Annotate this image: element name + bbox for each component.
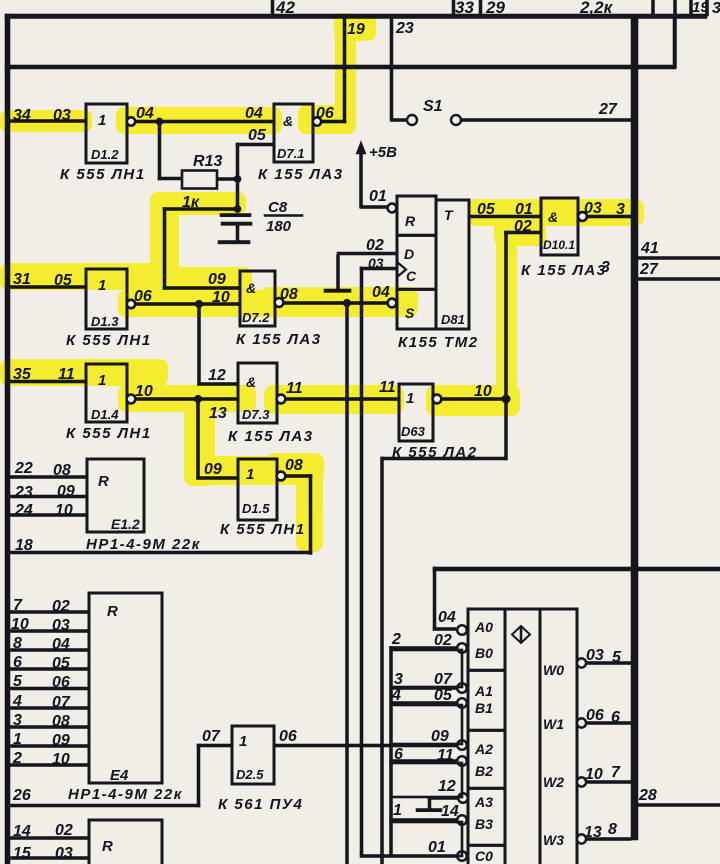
svg-text:3: 3 — [13, 712, 22, 729]
svg-text:03: 03 — [584, 200, 602, 217]
svg-text:&: & — [283, 113, 293, 129]
svg-text:W2: W2 — [543, 774, 564, 790]
svg-text:02: 02 — [55, 822, 73, 839]
svg-text:D7.2: D7.2 — [242, 310, 270, 325]
svg-text:6: 6 — [611, 709, 620, 726]
svg-text:3: 3 — [616, 201, 625, 218]
long vertical wire down to mux area — [381, 457, 384, 864]
svg-text:05: 05 — [248, 127, 267, 144]
mux function symbol (diamond) — [512, 626, 530, 643]
capacitor C8 — [220, 214, 251, 217]
svg-text:8: 8 — [13, 635, 22, 652]
svg-text:13: 13 — [584, 824, 602, 841]
input bubble C0 — [457, 851, 467, 861]
svg-text:А3: А3 — [474, 794, 493, 810]
ground bar under C8 — [218, 241, 250, 244]
input bubble B3 — [457, 815, 467, 825]
wire 4/07 — [9, 707, 89, 710]
svg-text:D81: D81 — [441, 312, 465, 327]
node junction at C8 — [234, 205, 241, 212]
svg-text:4: 4 — [391, 687, 401, 704]
svg-text:29: 29 — [485, 0, 505, 17]
svg-text:5: 5 — [612, 649, 622, 666]
wire 01 to C0 from long vertical — [360, 855, 458, 858]
svg-text:08: 08 — [280, 286, 298, 303]
cell divider — [468, 844, 505, 847]
svg-text:D1.4: D1.4 — [91, 407, 119, 422]
svg-text:D7.1: D7.1 — [277, 146, 304, 161]
NAND gate D10.1 — [541, 198, 578, 255]
svg-text:27: 27 — [598, 101, 618, 118]
svg-text:180: 180 — [266, 218, 292, 235]
svg-text:14: 14 — [441, 803, 459, 820]
svg-text:05: 05 — [54, 272, 73, 289]
svg-text:К 155 ЛА3: К 155 ЛА3 — [228, 428, 314, 445]
D7.2 output bubble — [275, 298, 284, 307]
wire 03 from D10.1 to bus — [587, 215, 632, 218]
wire 04 from D1.2 to D7.1 — [135, 120, 274, 123]
top bus wire 1 — [5, 14, 707, 19]
svg-text:К 155 ЛА3: К 155 ЛА3 — [521, 262, 607, 279]
svg-text:3: 3 — [394, 671, 403, 688]
wire W3 to bus — [586, 838, 631, 841]
wire 08 from D1.5 down to wire 18 — [285, 475, 312, 478]
svg-text:К 155 ЛА3: К 155 ЛА3 — [236, 331, 322, 348]
svg-text:41: 41 — [640, 240, 659, 257]
wire from node down to C8 — [236, 179, 239, 211]
svg-text:02: 02 — [514, 218, 532, 235]
svg-text:03: 03 — [52, 617, 70, 634]
wire 8/04 — [9, 649, 89, 652]
svg-text:Е1.2: Е1.2 — [111, 516, 140, 532]
top cell divider x453 — [452, 0, 455, 16]
clock input triangle — [397, 262, 406, 277]
svg-text:01: 01 — [369, 188, 387, 205]
input bubble A1 — [457, 683, 467, 693]
wire from 26 up to D2.5 input — [197, 744, 200, 807]
svg-text:06: 06 — [52, 674, 70, 691]
svg-text:К 555 ЛН1: К 555 ЛН1 — [66, 332, 152, 349]
svg-text:01: 01 — [515, 201, 533, 218]
svg-text:D1.2: D1.2 — [91, 147, 119, 162]
svg-text:А1: А1 — [474, 683, 493, 699]
svg-text:1: 1 — [393, 802, 402, 819]
svg-text:К 555 ЛН1: К 555 ЛН1 — [60, 166, 146, 183]
svg-text:НР1-4-9М 22к: НР1-4-9М 22к — [86, 536, 201, 553]
svg-text:2: 2 — [12, 750, 22, 767]
svg-text:6: 6 — [394, 746, 403, 763]
input bubble A3 — [458, 793, 468, 803]
input bubble A0 — [457, 625, 467, 635]
wire W0 to bus — [586, 662, 631, 665]
svg-text:В0: В0 — [475, 645, 493, 661]
svg-text:11: 11 — [58, 366, 75, 383]
svg-text:06: 06 — [316, 105, 334, 122]
svg-text:03: 03 — [55, 845, 73, 862]
svg-text:11: 11 — [379, 379, 396, 396]
svg-text:S1: S1 — [423, 98, 443, 115]
top cell divider x480 — [479, 0, 482, 16]
wire 24/10 — [9, 514, 87, 517]
svg-text:04: 04 — [372, 284, 390, 301]
svg-text:33: 33 — [455, 0, 474, 17]
node junction — [502, 395, 510, 403]
svg-text:13: 13 — [209, 405, 227, 422]
divider C/S — [397, 288, 436, 291]
wire 27 to right edge — [636, 278, 720, 281]
S input bubble — [388, 299, 397, 308]
svg-text:А0: А0 — [474, 619, 493, 635]
wire 1/14 to B3 — [390, 819, 458, 822]
svg-text:23: 23 — [395, 20, 414, 37]
wire 06/10 from D1.3 to D7.2 — [135, 303, 240, 306]
svg-text:7: 7 — [611, 764, 621, 781]
D7.1 output bubble — [313, 117, 321, 125]
svg-text:Т: Т — [444, 207, 454, 223]
svg-text:R13: R13 — [193, 153, 222, 170]
svg-text:7: 7 — [13, 597, 23, 614]
svg-text:27: 27 — [639, 261, 659, 278]
svg-text:R: R — [102, 838, 113, 855]
top cell divider x691 — [690, 0, 693, 16]
wire +5V to R input — [360, 206, 388, 209]
wire 23 (vertical to switch S1) — [390, 17, 393, 120]
node junction right of R13 — [234, 175, 241, 182]
mux output column — [540, 609, 577, 864]
svg-text:07: 07 — [434, 671, 453, 688]
svg-text:34: 34 — [13, 107, 31, 124]
svg-text:02: 02 — [366, 237, 384, 254]
svg-text:11: 11 — [286, 380, 303, 397]
svg-text:НР1-4-9М 22к: НР1-4-9М 22к — [68, 786, 183, 803]
wire 6/05 — [9, 668, 89, 671]
wire 35 from edge connector — [9, 380, 86, 383]
svg-text:&: & — [246, 374, 256, 390]
wire 26 — [9, 804, 200, 807]
loop box B1-A2 — [391, 705, 462, 744]
long vertical wire from node down — [346, 303, 349, 864]
top cell divider x707 — [706, 0, 709, 16]
svg-text:C: C — [406, 268, 417, 284]
cell divider — [468, 729, 505, 732]
cell divider — [468, 787, 505, 790]
input bubble B0 — [457, 643, 467, 653]
svg-text:2: 2 — [391, 631, 401, 648]
svg-text:12: 12 — [208, 367, 226, 384]
wire 1k from node to the left and down to D7.2 input 09 — [163, 208, 238, 211]
svg-text:2,2к: 2,2к — [579, 0, 614, 17]
NAND gate D7.2 — [240, 271, 275, 326]
inverter D1.4 — [86, 364, 127, 422]
svg-text:D63: D63 — [401, 424, 426, 439]
NAND gate D7.3 — [238, 363, 277, 423]
D1.4 output bubble — [127, 395, 136, 404]
svg-text:1: 1 — [98, 112, 106, 129]
inverter D1.5 — [238, 459, 277, 520]
wire top of mux enclosure to right edge — [433, 567, 720, 571]
svg-text:09: 09 — [204, 461, 222, 478]
svg-text:05: 05 — [477, 201, 496, 218]
svg-text:09: 09 — [208, 271, 226, 288]
wire 1/09 — [9, 745, 89, 748]
svg-text:D: D — [404, 246, 414, 262]
svg-text:3: 3 — [712, 0, 720, 17]
svg-text:1: 1 — [406, 390, 414, 407]
node junction on wire 13 — [194, 395, 202, 403]
wire from junction down to D7.3 input 12 — [198, 304, 201, 385]
svg-text:W3: W3 — [543, 832, 564, 848]
svg-text:W0: W0 — [543, 662, 564, 678]
svg-text:09: 09 — [431, 728, 449, 745]
svg-text:R: R — [98, 473, 109, 490]
svg-text:42: 42 — [275, 0, 295, 17]
divider R/D — [397, 234, 436, 237]
wire W1 to bus — [586, 722, 631, 725]
svg-text:&: & — [246, 280, 256, 296]
wire 06 to vertical 19 — [321, 120, 346, 123]
svg-text:К 561 ПУ4: К 561 ПУ4 — [218, 796, 303, 813]
svg-text:D1.3: D1.3 — [91, 314, 119, 329]
svg-text:В1: В1 — [475, 700, 493, 716]
wire from junction down to D1.5 input — [197, 399, 200, 479]
long vertical wire 03 down — [360, 267, 363, 856]
wire 2/10 — [9, 764, 89, 767]
wire 03 to D81 C input — [360, 267, 397, 270]
svg-text:К155 ТМ2: К155 ТМ2 — [398, 334, 479, 351]
svg-text:А2: А2 — [474, 741, 493, 757]
svg-text:С0: С0 — [475, 848, 493, 864]
wire 3/07 to A1 — [391, 687, 457, 690]
wire 27 from S1 to bus — [461, 119, 631, 122]
top cell divider x272 — [271, 0, 274, 16]
svg-text:07: 07 — [202, 728, 221, 745]
wire 15/03 — [9, 857, 89, 860]
wire 05 from node up to D7.1 input — [236, 143, 239, 181]
box at top right of bus — [673, 16, 677, 68]
svg-text:R: R — [107, 603, 118, 620]
svg-text:10: 10 — [212, 289, 230, 306]
svg-text:07: 07 — [52, 694, 71, 711]
D1.5 output bubble — [277, 472, 286, 481]
inverter D6.3 — [399, 384, 433, 441]
top cell divider x653 — [652, 0, 655, 16]
svg-text:D7.3: D7.3 — [242, 407, 270, 422]
svg-text:06: 06 — [586, 707, 604, 724]
svg-text:К 155 ЛА3: К 155 ЛА3 — [258, 166, 344, 183]
svg-text:04: 04 — [136, 105, 154, 122]
capacitor stub above wire 14 — [428, 797, 431, 809]
svg-text:D10.1: D10.1 — [543, 238, 575, 252]
D1.2 output bubble — [127, 117, 135, 125]
svg-text:К 555 ЛН1: К 555 ЛН1 — [66, 425, 152, 442]
loop box B3-C0 — [391, 822, 462, 856]
wire 4/05 to B1 — [391, 702, 457, 705]
svg-text:01: 01 — [428, 839, 446, 856]
svg-text:R: R — [405, 213, 416, 229]
svg-text:11: 11 — [437, 747, 454, 764]
node junction on wire 08 — [343, 299, 351, 307]
inverter D1.3 — [86, 269, 127, 329]
NAND gate D7.1 — [274, 104, 313, 162]
R input bubble — [388, 204, 397, 213]
wire down to A0 — [433, 567, 436, 629]
svg-text:С8: С8 — [268, 199, 288, 216]
wire 10/13 from D1.4 to D7.3 — [135, 398, 238, 401]
switch S1 contact right — [451, 115, 461, 125]
node junction on wire 10 — [195, 300, 203, 308]
svg-text:10: 10 — [11, 616, 29, 633]
svg-text:03: 03 — [368, 255, 384, 271]
wire 5/06 — [9, 687, 89, 690]
flip-flop D81 K155TM2 main box — [397, 196, 436, 329]
svg-text:05: 05 — [434, 687, 453, 704]
resistor network E4 — [89, 593, 162, 783]
svg-text:1: 1 — [246, 466, 254, 483]
edge connector border (left bus) — [5, 14, 10, 864]
loop box B2-A3 — [391, 763, 462, 797]
wire 28 to right edge — [636, 804, 720, 807]
multiplexer chip left pin column — [468, 609, 505, 864]
svg-text:10: 10 — [55, 502, 73, 519]
svg-text:04: 04 — [245, 105, 263, 122]
wire 06/09 from D2.5 to mux A2 — [274, 744, 457, 747]
svg-text:06: 06 — [279, 728, 297, 745]
wire 22/08 — [9, 476, 87, 479]
svg-text:1: 1 — [98, 372, 106, 389]
svg-text:04: 04 — [52, 636, 70, 653]
svg-text:12: 12 — [438, 778, 456, 795]
wire 3/08 — [9, 726, 89, 729]
svg-text:08: 08 — [285, 457, 303, 474]
output bubble W2 — [577, 777, 586, 786]
svg-text:02: 02 — [52, 598, 70, 615]
input bubble B2 — [457, 756, 467, 766]
svg-text:19: 19 — [347, 21, 365, 38]
svg-text:31: 31 — [13, 271, 31, 288]
wire 10/03 — [9, 630, 89, 633]
svg-text:&: & — [548, 209, 558, 225]
capacitor stub above wire 08 — [337, 255, 340, 289]
cell divider — [468, 669, 505, 672]
wire 31 from edge connector — [9, 286, 86, 289]
wire 08 from D7.2 to D81 S input — [284, 302, 388, 305]
wire 23/09 — [9, 495, 87, 498]
wire 12 to A3 — [428, 797, 458, 800]
svg-text:08: 08 — [53, 462, 71, 479]
svg-text:26: 26 — [12, 787, 31, 804]
svg-text:В3: В3 — [475, 816, 493, 832]
wire 02 to D81 D input — [337, 252, 397, 255]
svg-text:18: 18 — [15, 537, 33, 554]
resistor network E5 — [89, 820, 162, 864]
wire R13 to node — [217, 178, 238, 181]
wire 2/02 to B0 — [390, 647, 458, 650]
svg-text:W1: W1 — [543, 716, 564, 732]
wire W2 to bus — [586, 781, 631, 784]
svg-text:S: S — [405, 305, 415, 321]
wire 41 to right edge — [636, 257, 720, 260]
wire from node down and left (to long vertical) — [505, 399, 508, 460]
wire 19 (vertical from top bus, highlighted) — [343, 17, 346, 123]
svg-text:24: 24 — [14, 502, 33, 519]
top bus wire 2 — [5, 65, 676, 69]
right vertical bus — [631, 16, 638, 840]
svg-text:04: 04 — [438, 609, 456, 626]
output bubble W3 — [577, 834, 586, 843]
svg-text:D1.5: D1.5 — [242, 501, 270, 516]
mux middle body column — [505, 609, 540, 864]
loop box B0-A1 — [391, 650, 462, 687]
resistor network E1.2 — [87, 459, 144, 532]
svg-text:1: 1 — [239, 733, 247, 750]
output bubble W1 — [577, 718, 586, 727]
svg-text:23: 23 — [14, 484, 33, 501]
svg-text:35: 35 — [13, 366, 32, 383]
wire 18 — [9, 551, 312, 554]
svg-text:03: 03 — [586, 647, 604, 664]
svg-text:08: 08 — [52, 713, 70, 730]
svg-text:28: 28 — [638, 787, 657, 804]
svg-text:5: 5 — [13, 673, 23, 690]
wire to S1 — [390, 119, 407, 122]
svg-text:+5В: +5В — [369, 144, 397, 161]
wire 6/11 to B2 — [390, 760, 458, 763]
D6.3 output bubble — [433, 395, 442, 404]
wire 7/02 — [9, 611, 89, 614]
input bubble B1 — [457, 698, 467, 708]
svg-text:05: 05 — [52, 655, 71, 672]
inverter D1.2 — [86, 104, 127, 163]
svg-text:4: 4 — [12, 693, 22, 710]
svg-text:14: 14 — [13, 823, 31, 840]
svg-text:09: 09 — [52, 732, 70, 749]
wire 05/01 from D81 output to D10.1 — [469, 215, 541, 218]
svg-text:22: 22 — [14, 460, 33, 477]
svg-text:09: 09 — [57, 483, 75, 500]
node junction on wire 04 — [156, 118, 163, 125]
svg-text:6: 6 — [13, 654, 22, 671]
svg-text:1: 1 — [13, 731, 22, 748]
wire from node up to D10.1 input 02 — [505, 231, 508, 399]
wire 14/02 — [9, 837, 89, 840]
switch S1 contact left — [407, 115, 417, 125]
+5V supply arrow — [360, 148, 363, 208]
svg-text:1: 1 — [98, 277, 106, 294]
buffer D2.5 — [232, 726, 274, 784]
wire from junction down to R13 — [158, 121, 161, 180]
wire 34 from edge connector — [9, 120, 86, 123]
input bubble A2 — [457, 740, 467, 750]
svg-text:03: 03 — [53, 107, 71, 124]
svg-text:10: 10 — [585, 766, 603, 783]
highlighter marks (yellow) — [0, 13, 644, 552]
wire from D6.3 to node — [441, 398, 506, 401]
output bubble W0 — [577, 658, 586, 667]
svg-text:Е4: Е4 — [110, 767, 129, 784]
svg-text:10: 10 — [52, 751, 70, 768]
svg-text:02: 02 — [434, 632, 452, 649]
top cell divider x675 — [674, 0, 677, 16]
svg-text:8: 8 — [608, 821, 617, 838]
D7.3 output bubble — [277, 395, 286, 404]
wire 11 from D7.3 to D6.3 — [285, 398, 399, 401]
svg-text:К 555 ЛН1: К 555 ЛН1 — [220, 521, 306, 538]
svg-text:15: 15 — [13, 845, 32, 862]
D1.3 output bubble — [127, 300, 135, 308]
resistor R13 — [182, 171, 217, 189]
vertical wire at x391 — [390, 647, 393, 857]
svg-text:D2.5: D2.5 — [236, 767, 264, 782]
